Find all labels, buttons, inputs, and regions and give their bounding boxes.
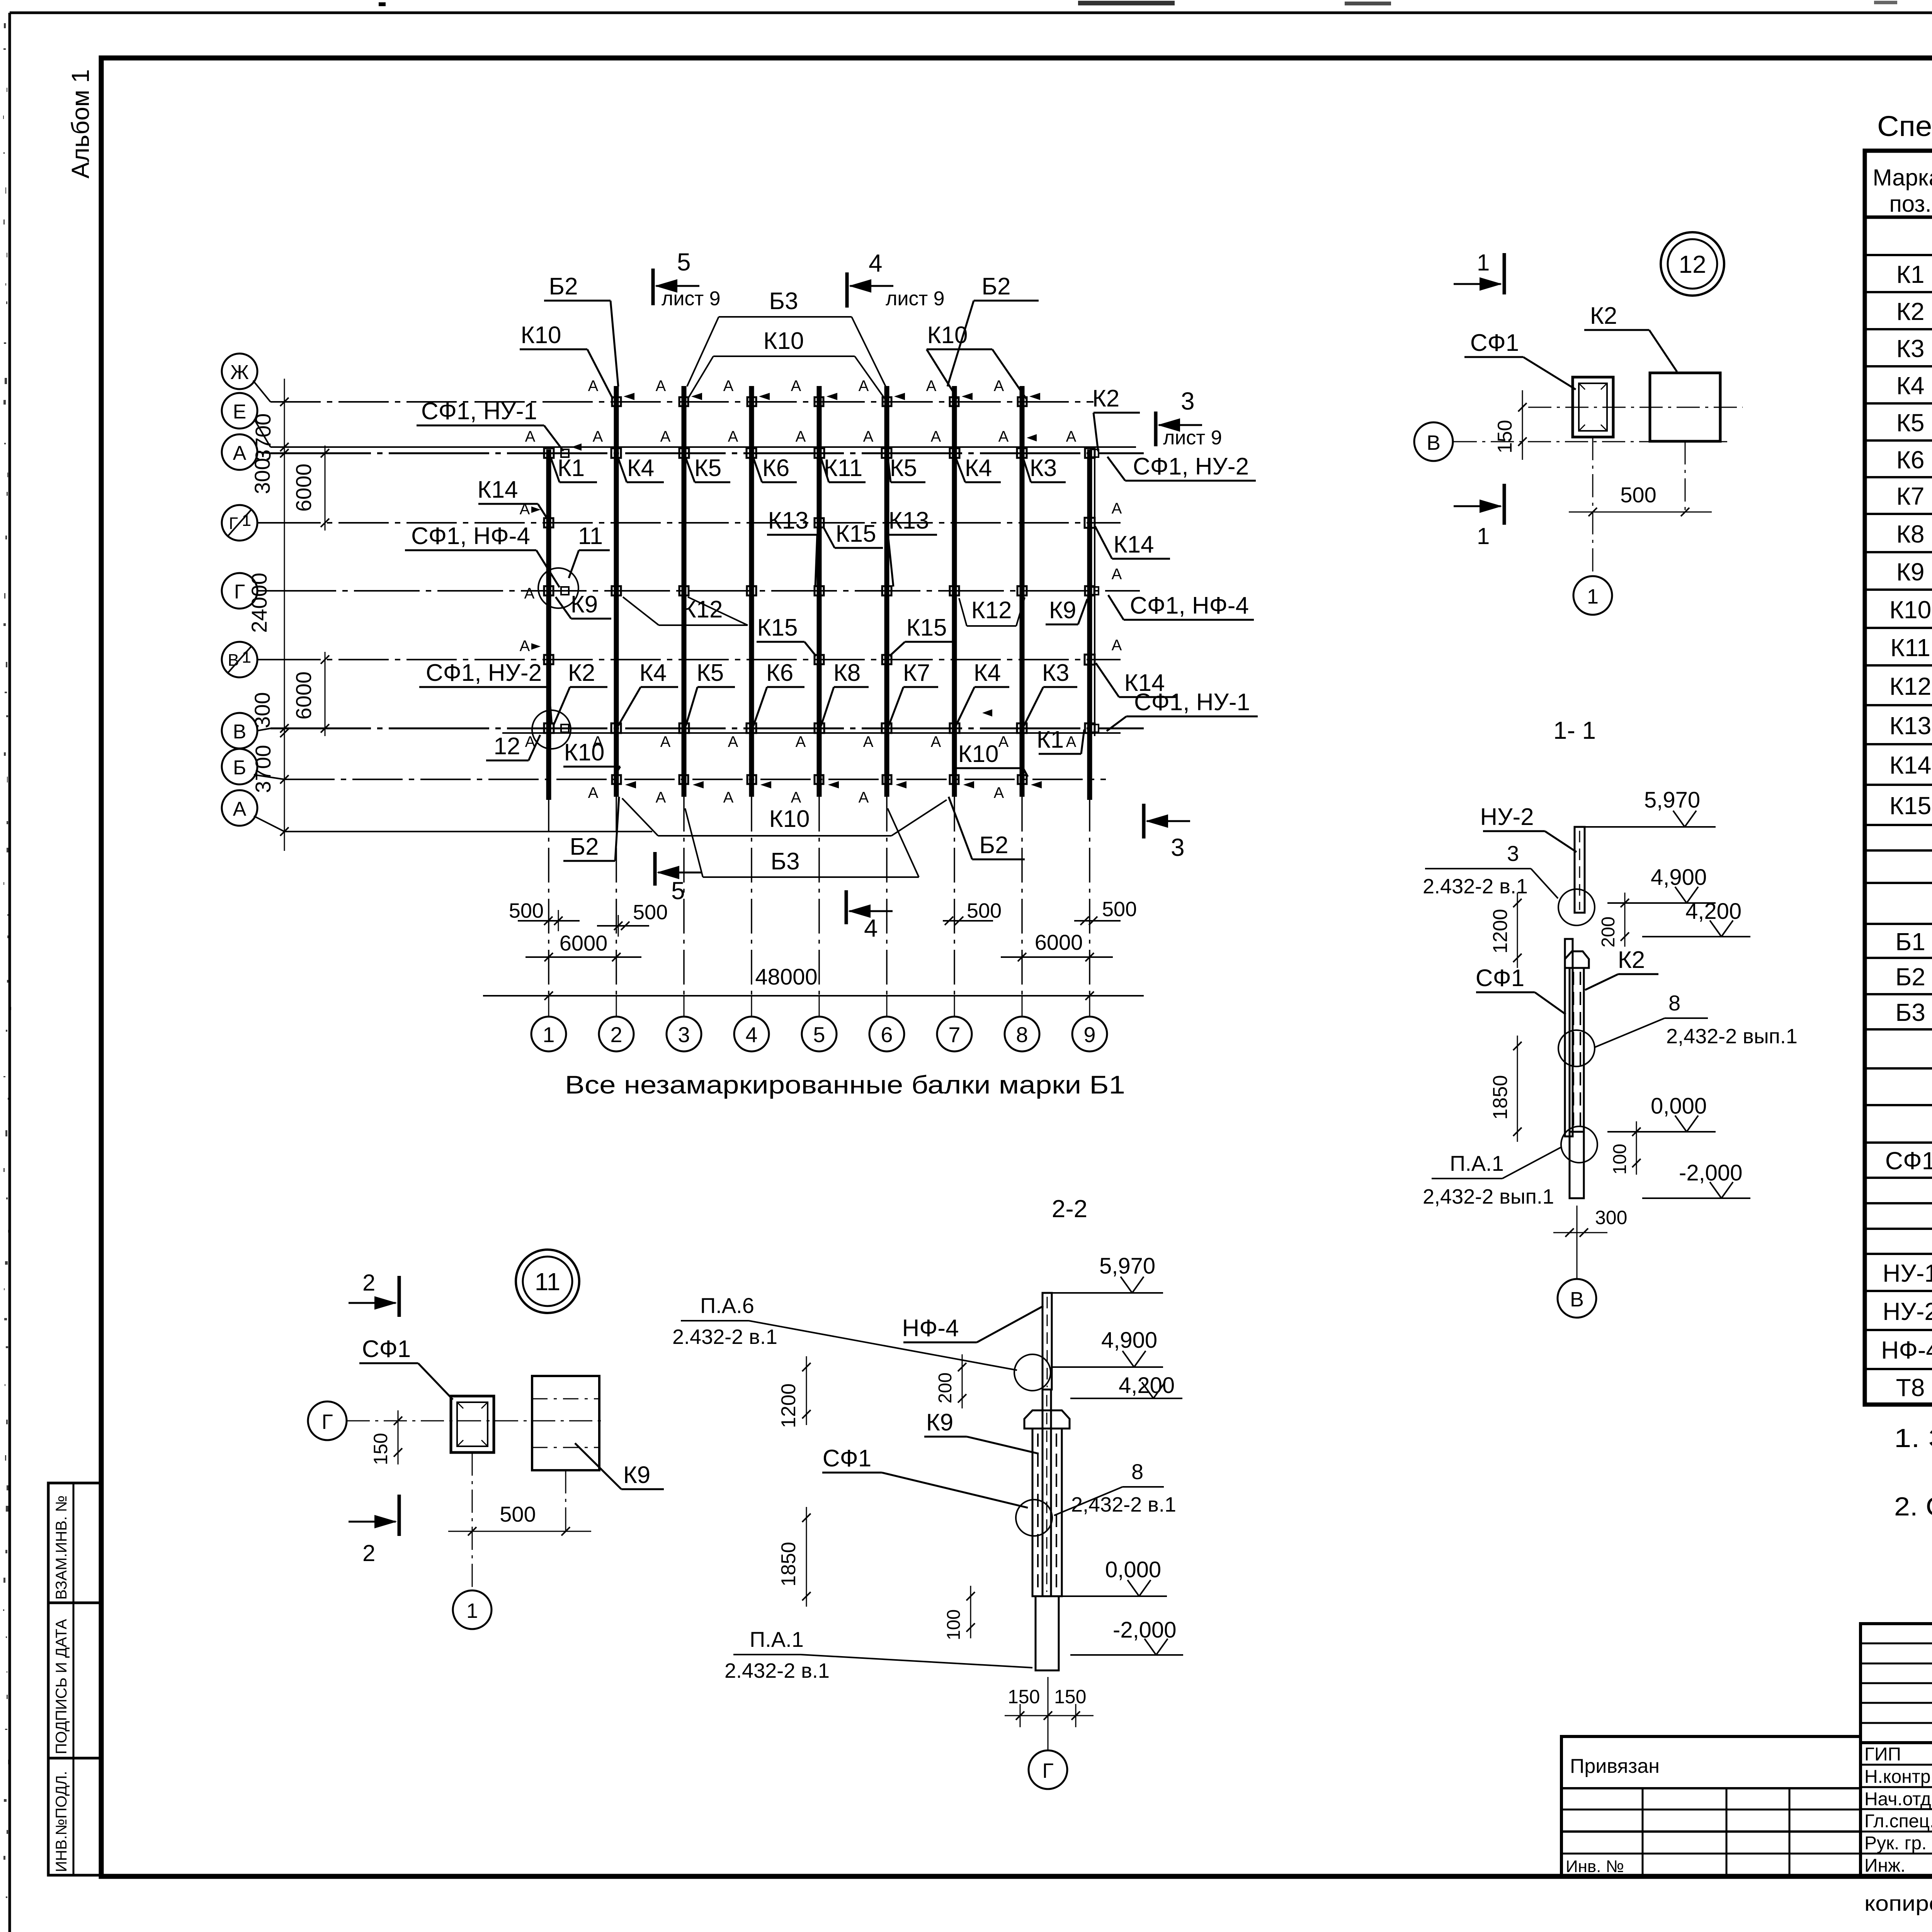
- svg-text:А: А: [656, 789, 666, 806]
- column axis circle 7: [937, 1017, 972, 1051]
- svg-text:СФ1: СФ1: [362, 1336, 411, 1362]
- svg-text:А: А: [791, 789, 801, 806]
- detail 12 axis В line: [1454, 441, 1727, 442]
- svg-text:1: 1: [242, 648, 251, 667]
- svg-text:К12: К12: [1889, 672, 1931, 700]
- staff row ГИП Борисов: [1864, 1743, 1932, 1765]
- svg-text:Т8: Т8: [1896, 1374, 1925, 1401]
- title block staff grid: [1861, 1743, 1932, 1876]
- svg-text:Б2: Б2: [1895, 963, 1925, 991]
- svg-text:К10: К10: [763, 328, 804, 354]
- svg-text:200: 200: [935, 1372, 956, 1403]
- section marker 3 top-right: [1156, 387, 1222, 449]
- orientation marks row Г/1: [520, 500, 1122, 518]
- section 1-1 column body К2: [1570, 968, 1584, 1132]
- svg-text:4: 4: [869, 249, 883, 277]
- svg-text:К2: К2: [1092, 385, 1120, 412]
- left dimension chain outer: [247, 379, 289, 851]
- beam line column 9: [1087, 449, 1092, 800]
- svg-text:9: 9: [1083, 1022, 1095, 1047]
- svg-text:А: А: [728, 733, 738, 750]
- svg-text:К4: К4: [965, 455, 992, 481]
- svg-text:5,970: 5,970: [1644, 787, 1700, 813]
- svg-text:К9: К9: [623, 1462, 651, 1488]
- section marker 5 top: [653, 248, 721, 310]
- section 1-1 dim 100: [1610, 1121, 1641, 1175]
- svg-text:11: 11: [535, 1268, 560, 1296]
- svg-text:Г: Г: [1042, 1759, 1053, 1782]
- detail 12 axis circle В: [1414, 422, 1453, 461]
- title block left extension: [1561, 1736, 1861, 1876]
- column line 2 axis continuation: [616, 797, 617, 995]
- svg-text:А: А: [233, 442, 247, 464]
- svg-text:СФ1, НУ-1: СФ1, НУ-1: [421, 398, 537, 425]
- axis circle Г left: [222, 573, 257, 609]
- section marker 5 bottom: [655, 852, 701, 905]
- svg-text:1200: 1200: [1489, 909, 1512, 954]
- column line 4 axis continuation: [751, 797, 752, 995]
- section 2-2 label ПА6: [672, 1293, 1017, 1370]
- svg-text:К14: К14: [1113, 531, 1154, 558]
- svg-text:Спецификация к схеме располо: Спецификация к схеме расположения колонн…: [1877, 110, 1932, 142]
- orientation marks row Г: [524, 566, 1122, 602]
- svg-text:К5: К5: [694, 455, 722, 481]
- svg-text:Инж.: Инж.: [1864, 1855, 1905, 1876]
- svg-text:К10: К10: [958, 741, 998, 767]
- column line 9 axis continuation: [1089, 797, 1090, 995]
- svg-text:300: 300: [250, 692, 274, 728]
- detail 11 dimension 150: [370, 1410, 402, 1465]
- svg-text:500: 500: [633, 901, 668, 924]
- svg-text:150: 150: [370, 1433, 391, 1465]
- svg-text:К14: К14: [477, 476, 518, 503]
- column axis circle 3: [667, 1017, 701, 1051]
- svg-text:К7: К7: [903, 660, 930, 686]
- svg-text:Е: Е: [233, 401, 247, 423]
- svg-text:Б: Б: [233, 757, 246, 779]
- section 2-2 dims 150 150: [1005, 1686, 1094, 1727]
- svg-text:лист 9: лист 9: [886, 287, 945, 310]
- svg-text:К15: К15: [757, 614, 798, 641]
- svg-text:500: 500: [1620, 483, 1656, 507]
- detail 11 section marker 2 bottom: [349, 1495, 399, 1566]
- svg-text:лист 9: лист 9: [662, 287, 721, 310]
- axis circle leaders: [253, 381, 284, 832]
- svg-text:Б2: Б2: [981, 273, 1010, 300]
- svg-text:СФ1: СФ1: [1476, 965, 1524, 992]
- svg-text:5,970: 5,970: [1099, 1253, 1155, 1279]
- svg-text:К2: К2: [1618, 947, 1645, 973]
- svg-text:К11: К11: [1890, 634, 1930, 662]
- svg-text:СФ1, НУ-2: СФ1, НУ-2: [1133, 453, 1249, 480]
- svg-text:СФ1, НФ-4: СФ1, НФ-4: [1130, 592, 1249, 619]
- svg-text:К10: К10: [769, 806, 810, 832]
- label Б3 top bracket: [687, 288, 886, 386]
- left stamp column ПОДПИСЬ И ДАТА: [48, 1603, 100, 1758]
- svg-text:1850: 1850: [777, 1542, 800, 1587]
- detail 11 dimension 500: [448, 1452, 591, 1590]
- svg-text:5: 5: [677, 248, 691, 276]
- svg-text:300: 300: [250, 458, 274, 494]
- orientation marks row В/1: [520, 637, 1122, 655]
- svg-text:К1: К1: [1896, 260, 1925, 288]
- detail 12 callout circle: [1661, 232, 1724, 296]
- svg-text:СФ1, НУ-2: СФ1, НУ-2: [426, 660, 542, 686]
- beam line column 1: [546, 449, 551, 800]
- detail 11 section marker 2 top: [349, 1270, 399, 1317]
- svg-text:В: В: [1570, 1288, 1584, 1311]
- svg-text:К10: К10: [564, 739, 604, 766]
- svg-text:А: А: [998, 428, 1009, 445]
- section 1-1 topping НУ-2 strip: [1575, 827, 1585, 913]
- detail 11 column К9 box: [532, 1376, 599, 1470]
- columns row Г/1: [544, 518, 1095, 528]
- axis circle В left: [222, 713, 257, 748]
- svg-text:К10: К10: [520, 322, 561, 349]
- svg-text:К2: К2: [1590, 303, 1617, 329]
- left stamp column ИНВ.№ ПОДЛ.: [48, 1758, 100, 1875]
- svg-text:500: 500: [500, 1502, 536, 1526]
- svg-text:К5: К5: [890, 455, 917, 481]
- svg-text:12: 12: [494, 733, 520, 760]
- svg-text:К15: К15: [906, 614, 947, 641]
- section 2-2 node circle middle: [1016, 1500, 1052, 1536]
- svg-text:1- 1: 1- 1: [1553, 716, 1596, 744]
- svg-text:2. Спецификацию соединительн: 2. Спецификацию соединительных изделий с…: [1894, 1492, 1932, 1521]
- svg-text:0,000: 0,000: [1105, 1557, 1161, 1582]
- svg-text:5: 5: [813, 1022, 825, 1047]
- svg-text:К14: К14: [1889, 751, 1931, 779]
- svg-text:2: 2: [362, 1270, 375, 1296]
- svg-text:12: 12: [1679, 250, 1706, 278]
- section marker 4 top: [847, 249, 945, 310]
- section 1-1 dim 1200: [1489, 893, 1522, 968]
- svg-text:А: А: [863, 428, 874, 445]
- svg-text:В: В: [1427, 431, 1440, 454]
- svg-text:2.432-2 в.1: 2.432-2 в.1: [672, 1325, 777, 1349]
- svg-text:3: 3: [1171, 833, 1185, 861]
- svg-text:Все незамаркированные балки: Все незамаркированные балки марки Б1: [565, 1070, 1125, 1099]
- svg-text:К15: К15: [1889, 792, 1931, 820]
- section 1-1 level -2.000: [1642, 1197, 1750, 1199]
- dimension 500 col1: [509, 899, 580, 931]
- svg-text:ВЗАМ.ИНВ. №: ВЗАМ.ИНВ. №: [53, 1495, 70, 1600]
- svg-text:Ж: Ж: [230, 361, 249, 384]
- svg-text:А: А: [863, 733, 874, 750]
- svg-text:К2: К2: [568, 660, 595, 686]
- beam line column 2: [614, 386, 619, 797]
- svg-text:150: 150: [1494, 420, 1516, 454]
- section 2-2 topping НФ-4 strip: [1043, 1293, 1052, 1389]
- beam line column 3: [682, 386, 687, 797]
- label К10 top-center bracket: [688, 328, 885, 399]
- svg-text:К8: К8: [833, 660, 861, 686]
- section 2-2 dim 1850: [777, 1507, 811, 1607]
- svg-text:2,432-2 вып.1: 2,432-2 вып.1: [1666, 1025, 1798, 1048]
- svg-text:А: А: [994, 784, 1004, 801]
- axis В/1 line: [270, 659, 1121, 660]
- svg-text:К3: К3: [1896, 335, 1925, 362]
- svg-text:СФ1: СФ1: [1470, 330, 1519, 356]
- svg-text:3700: 3700: [251, 745, 275, 793]
- svg-text:К13: К13: [768, 507, 808, 534]
- svg-text:4,200: 4,200: [1119, 1373, 1175, 1398]
- axis Ж line: [270, 401, 1094, 403]
- svg-text:3: 3: [1181, 387, 1195, 415]
- svg-text:К5: К5: [697, 660, 724, 686]
- section 1-1 node circle bottom: [1561, 1126, 1597, 1163]
- column line 3 axis continuation: [683, 797, 685, 995]
- svg-text:6: 6: [881, 1022, 893, 1047]
- svg-text:1. Знаком „А" на схеме пока: 1. Знаком „А" на схеме показана ориентац…: [1894, 1423, 1932, 1453]
- fachwerk post line right gable: [1094, 448, 1095, 736]
- svg-text:К1: К1: [1037, 726, 1064, 753]
- svg-text:Нач.отд.: Нач.отд.: [1864, 1789, 1932, 1810]
- section 1-1 label ПА1: [1423, 1147, 1562, 1208]
- svg-text:А: А: [796, 428, 806, 445]
- svg-text:4,900: 4,900: [1101, 1328, 1157, 1353]
- scan smudges top edge: [379, 0, 1932, 10]
- svg-text:1: 1: [466, 1599, 478, 1622]
- section 2-2 dim 100: [944, 1586, 975, 1640]
- svg-text:1: 1: [543, 1022, 554, 1047]
- section 1-1 column head: [1565, 951, 1589, 968]
- svg-text:11: 11: [578, 523, 603, 549]
- detail 11 axis circle Г: [308, 1401, 603, 1440]
- svg-text:А: А: [524, 585, 535, 602]
- column line 6 axis continuation: [886, 797, 888, 995]
- svg-text:100: 100: [1610, 1144, 1630, 1175]
- svg-text:6000: 6000: [560, 931, 608, 955]
- dimension 500 col9: [1074, 898, 1137, 925]
- detail 12 dimension 150: [1494, 390, 1527, 460]
- section 2-2 axis circle Г: [1029, 1677, 1067, 1789]
- svg-text:П.А.6: П.А.6: [700, 1293, 754, 1318]
- detail 11 post СФ1: [451, 1396, 494, 1452]
- fachwerk columns row Ж (К10): [612, 397, 1027, 406]
- section 2-2 level 0.000: [1063, 1595, 1167, 1597]
- svg-text:поз.: поз.: [1889, 191, 1931, 217]
- svg-text:200: 200: [1598, 917, 1619, 947]
- section 1-1 dim 200: [1598, 893, 1629, 947]
- column axis circle 2: [599, 1017, 634, 1051]
- axis Б line: [284, 779, 1106, 780]
- svg-text:Привязан: Привязан: [1570, 1755, 1660, 1777]
- section 2-2 column head: [1024, 1410, 1070, 1429]
- staff row Нач.отд. Гринкевич: [1864, 1788, 1932, 1810]
- svg-text:2.432-2 в.1: 2.432-2 в.1: [1423, 875, 1528, 898]
- svg-text:лист 9: лист 9: [1163, 427, 1222, 449]
- svg-text:500: 500: [509, 899, 544, 922]
- axis А line: [270, 452, 1144, 454]
- svg-text:А: А: [588, 784, 599, 801]
- staff row Гл.спец. Фролова: [1864, 1810, 1932, 1832]
- scan speckles left margin: [3, 23, 11, 1898]
- beam line column 8: [1020, 386, 1025, 797]
- svg-text:К12: К12: [682, 596, 723, 623]
- staff row Рук. гр. Сенаторов: [1864, 1832, 1932, 1854]
- svg-text:Г: Г: [234, 581, 245, 603]
- svg-text:7: 7: [948, 1022, 960, 1047]
- svg-text:К4: К4: [627, 455, 655, 481]
- svg-text:ИНВ.№ПОДЛ.: ИНВ.№ПОДЛ.: [53, 1771, 70, 1872]
- detail 12 centerline horizontal: [1528, 407, 1743, 408]
- orientation marks row Б: [588, 782, 1041, 806]
- axis Г/1 line: [270, 522, 1121, 524]
- orientation marks row А: [525, 428, 1077, 450]
- svg-text:К7: К7: [1896, 482, 1925, 510]
- section 1-1 axis circle В: [1558, 1206, 1596, 1318]
- svg-text:К13: К13: [888, 507, 929, 534]
- svg-text:А: А: [791, 378, 801, 395]
- dimension 500 col2: [597, 901, 668, 937]
- svg-text:К6: К6: [762, 455, 790, 481]
- section 2-2 node circle top: [1014, 1354, 1051, 1391]
- dimension 6000 cols 8-9: [1001, 930, 1113, 961]
- svg-text:1: 1: [1587, 585, 1599, 608]
- svg-text:К15: К15: [835, 520, 876, 547]
- svg-text:К13: К13: [1889, 712, 1931, 740]
- svg-text:К3: К3: [1030, 455, 1057, 481]
- section 2-2 post СФ1 strip: [1043, 1389, 1051, 1596]
- axis В line: [270, 728, 1144, 730]
- label Б3 bottom bracket: [685, 808, 919, 877]
- svg-text:А: А: [656, 378, 666, 395]
- svg-text:150: 150: [1054, 1686, 1086, 1708]
- svg-text:К10: К10: [1889, 596, 1931, 624]
- svg-text:1: 1: [1477, 523, 1490, 549]
- svg-text:4: 4: [745, 1022, 757, 1047]
- svg-text:К6: К6: [766, 660, 794, 686]
- detail 12 section marker 1 top: [1454, 250, 1504, 294]
- svg-text:8: 8: [1016, 1022, 1028, 1047]
- section 1-1 label 3 2.432-2: [1423, 841, 1558, 898]
- dimension 500 col7: [943, 899, 1002, 925]
- svg-text:К4: К4: [974, 660, 1001, 686]
- svg-text:4: 4: [864, 914, 878, 942]
- detail 11 axis circle 1: [453, 1590, 492, 1629]
- svg-text:2,432-2 в.1: 2,432-2 в.1: [1071, 1493, 1176, 1516]
- axis circle Е left: [222, 393, 257, 429]
- svg-text:6000: 6000: [1035, 930, 1083, 954]
- section 2-2 foundation part: [1036, 1596, 1059, 1670]
- svg-text:Б3: Б3: [770, 848, 799, 875]
- title block revision grid: [1861, 1624, 1932, 1743]
- axis Е line: [270, 446, 1136, 448]
- label К12 left bracket: [623, 596, 748, 625]
- svg-text:А: А: [796, 733, 806, 750]
- section 1-1 level 4.200: [1642, 936, 1750, 937]
- svg-text:А: А: [1112, 500, 1122, 517]
- svg-text:3: 3: [1507, 841, 1519, 866]
- columns row Г: [544, 586, 1099, 595]
- beam line column 5: [817, 386, 822, 797]
- column axis circle 8: [1005, 1017, 1039, 1051]
- svg-text:Б3: Б3: [769, 288, 798, 315]
- svg-text:А: А: [593, 428, 603, 445]
- svg-text:6000: 6000: [291, 464, 316, 512]
- svg-text:Г: Г: [321, 1410, 333, 1434]
- column line 8 axis continuation: [1021, 797, 1023, 995]
- svg-text:Б3: Б3: [1895, 998, 1925, 1026]
- svg-text:2-2: 2-2: [1052, 1195, 1088, 1223]
- svg-text:СФ1: СФ1: [1885, 1147, 1932, 1175]
- svg-text:К9: К9: [1896, 558, 1925, 586]
- axis Г line: [270, 590, 1140, 592]
- svg-text:копировал Бабина: копировал Бабина: [1864, 1891, 1932, 1915]
- svg-text:1: 1: [1477, 250, 1490, 276]
- svg-text:6000: 6000: [291, 672, 316, 720]
- dimension 48000 overall: [483, 964, 1144, 1000]
- svg-text:П.А.1: П.А.1: [750, 1627, 804, 1651]
- axis circle А left: [222, 790, 257, 826]
- axis circle Ж left: [222, 354, 257, 389]
- beam line column 6: [884, 386, 889, 797]
- svg-text:К3: К3: [1042, 660, 1070, 686]
- column axis circle 1: [531, 1017, 566, 1051]
- svg-text:А: А: [723, 789, 734, 806]
- detail 12 column К2 square: [1650, 373, 1720, 441]
- svg-text:1200: 1200: [777, 1383, 800, 1428]
- svg-text:А: А: [859, 378, 869, 395]
- svg-text:К10: К10: [927, 322, 968, 349]
- axis circle А left: [222, 434, 257, 470]
- svg-text:Б2: Б2: [549, 273, 578, 300]
- svg-text:НУ-2: НУ-2: [1480, 804, 1534, 830]
- svg-text:А: А: [926, 378, 937, 395]
- svg-text:НФ-4: НФ-4: [1881, 1336, 1932, 1364]
- svg-text:К4: К4: [639, 660, 667, 686]
- label К10 bottom bracket: [622, 798, 947, 836]
- svg-text:3700: 3700: [251, 413, 275, 462]
- section 1-1 dim 1850: [1489, 1036, 1522, 1142]
- svg-text:100: 100: [944, 1609, 964, 1640]
- section 2-2 level 4.900: [1053, 1366, 1163, 1368]
- section 1-1 level 4.900: [1607, 902, 1716, 904]
- svg-text:К8: К8: [1896, 520, 1925, 548]
- left stamp column ВЗАМ.ИНВ.№: [48, 1483, 100, 1603]
- detail 12 dimension 500: [1569, 437, 1712, 576]
- section 1-1 node circle top: [1558, 889, 1595, 925]
- column line 5 axis continuation: [818, 797, 820, 995]
- detail 11 callout circle: [516, 1250, 579, 1313]
- svg-text:А: А: [588, 378, 599, 395]
- svg-text:А: А: [1066, 428, 1077, 445]
- svg-text:8: 8: [1668, 991, 1680, 1015]
- beam line column 7: [952, 386, 957, 797]
- svg-text:48000: 48000: [755, 964, 817, 990]
- svg-text:500: 500: [967, 899, 1002, 922]
- svg-text:А: А: [233, 798, 247, 820]
- svg-text:А: А: [931, 733, 941, 750]
- svg-text:А: А: [525, 428, 536, 445]
- svg-text:Инв. №: Инв. №: [1566, 1857, 1624, 1876]
- svg-text:Рук. гр.: Рук. гр.: [1864, 1833, 1927, 1854]
- column axis circle 6: [869, 1017, 904, 1051]
- svg-text:Альбом 1: Альбом 1: [66, 69, 94, 179]
- svg-text:ГИП: ГИП: [1864, 1744, 1901, 1765]
- dimension 6000 cols 1-2: [526, 931, 641, 961]
- fachwerk columns row Б (К10): [612, 775, 1027, 784]
- svg-text:К4: К4: [1896, 372, 1925, 400]
- svg-text:4,900: 4,900: [1651, 865, 1707, 890]
- spec table header text: [1873, 165, 1932, 218]
- svg-text:Марка,: Марка,: [1873, 165, 1932, 190]
- svg-text:А: А: [931, 428, 941, 445]
- svg-text:300: 300: [1595, 1207, 1627, 1228]
- section 1-1 post СФ1 strip: [1565, 939, 1573, 1136]
- svg-text:2: 2: [610, 1022, 622, 1047]
